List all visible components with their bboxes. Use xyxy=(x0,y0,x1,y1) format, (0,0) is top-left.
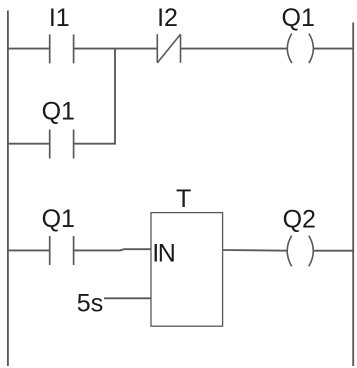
svg-text:Q2: Q2 xyxy=(283,206,316,234)
wire 5s input to timer box xyxy=(104,297,151,299)
svg-text:T: T xyxy=(176,185,191,213)
wire rung2: timer box to coil Q2 xyxy=(223,249,288,252)
wire rung1: contact I2 to coil Q1 xyxy=(181,48,288,50)
contact Q1 (NO, parallel branch) xyxy=(50,130,74,159)
coil Q2 xyxy=(287,236,313,267)
svg-text:Q1: Q1 xyxy=(282,4,315,32)
timer box T1 xyxy=(151,213,223,327)
contact I2 (NC) xyxy=(157,34,180,63)
wire branch vertical (junction to branch) xyxy=(114,48,116,143)
wire branch: contact Q1 to vertical junction xyxy=(74,143,116,145)
wire rung2: coil Q2 to right rail xyxy=(313,250,353,252)
wire rung2: left rail to contact Q1 xyxy=(8,249,50,251)
right power rail xyxy=(352,23,354,367)
wire rung2: contact Q1 to timer box IN xyxy=(74,249,151,250)
contact Q1 (NO, rung 2) xyxy=(50,236,74,265)
wire branch: left rail to contact Q1 xyxy=(8,143,50,145)
wire rung1: coil Q1 to right rail xyxy=(313,48,353,50)
svg-text:Q1: Q1 xyxy=(42,97,75,125)
wire rung1: left rail to contact I1 xyxy=(8,48,50,50)
contact I1 (NO) xyxy=(50,34,74,63)
wire rung1: contact I1 to contact I2 xyxy=(74,48,158,50)
svg-text:Q1: Q1 xyxy=(42,205,75,233)
coil Q1 xyxy=(287,34,313,64)
svg-text:I1: I1 xyxy=(49,4,70,32)
svg-text:I2: I2 xyxy=(157,4,178,32)
svg-text:5s: 5s xyxy=(77,289,103,317)
svg-text:IN: IN xyxy=(152,240,174,268)
left power rail xyxy=(7,10,9,366)
